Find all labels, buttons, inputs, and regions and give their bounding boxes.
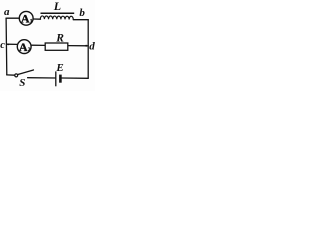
- ammeter A1: [19, 11, 33, 25]
- inductor L coil: [40, 16, 73, 20]
- svg-text:A: A: [21, 11, 30, 25]
- wire: switch fixed contact to battery: [28, 77, 56, 79]
- svg-text:2: 2: [28, 47, 31, 53]
- svg-text:S: S: [19, 77, 25, 89]
- wire: middle row, rail to A2: [7, 43, 18, 45]
- wire: battery to bottom-right corner: [62, 77, 88, 79]
- svg-text:c: c: [0, 40, 5, 51]
- ammeter A2: [17, 40, 31, 54]
- svg-text:b: b: [79, 7, 85, 19]
- wire: right vertical rail: [87, 20, 89, 79]
- wire: resistor R to right rail: [68, 45, 88, 47]
- inductor core bar: [41, 12, 75, 14]
- svg-text:d: d: [89, 41, 95, 53]
- wire: left vertical rail: [5, 18, 8, 75]
- switch pivot circle: [15, 74, 18, 77]
- svg-text:L: L: [53, 0, 61, 13]
- wire: A2 to resistor R: [31, 44, 45, 46]
- wire: bottom-left corner to switch pivot: [7, 74, 15, 76]
- svg-text:A: A: [19, 40, 28, 54]
- wire: A1 to inductor: [33, 18, 40, 20]
- junction at node c: [7, 44, 9, 46]
- junction at node d: [85, 45, 87, 47]
- battery long plate: [55, 71, 57, 86]
- switch blade: [18, 70, 34, 75]
- wire: inductor to top-right corner: [73, 19, 88, 21]
- resistor R box: [45, 43, 68, 50]
- battery short plate: [59, 75, 62, 83]
- svg-text:R: R: [55, 32, 64, 44]
- svg-text:E: E: [55, 62, 63, 74]
- svg-text:1: 1: [30, 18, 33, 24]
- wire: top-left horizontal from corner to ammeter A1: [6, 17, 19, 19]
- svg-text:a: a: [4, 6, 10, 18]
